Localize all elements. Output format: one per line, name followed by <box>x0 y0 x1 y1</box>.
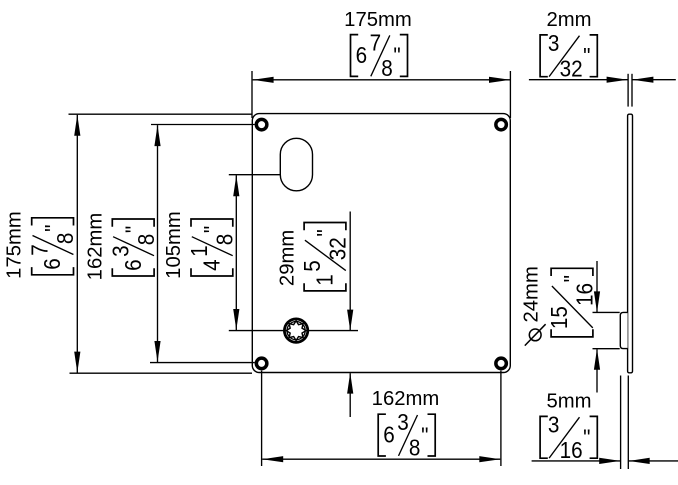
svg-text:4: 4 <box>198 259 224 271</box>
dimension 162mm bottom: inch fraction <box>378 409 435 461</box>
svg-text:175mm: 175mm <box>344 9 412 31</box>
svg-text:1: 1 <box>312 274 338 286</box>
oblong slot <box>280 138 312 191</box>
svg-text:1: 1 <box>186 245 212 257</box>
dimension dia24mm: upper arrow line <box>596 261 598 312</box>
dimension 29mm: lower arrow line <box>349 373 351 417</box>
dimension 29mm: upper arrow line <box>349 212 351 331</box>
dimension 175mm top: inch fraction <box>351 30 408 82</box>
svg-text:3: 3 <box>548 30 560 56</box>
svg-text:5mm: 5mm <box>546 391 591 413</box>
svg-text:15: 15 <box>546 306 572 329</box>
svg-text:162mm: 162mm <box>85 213 107 281</box>
dimension 105mm left: dimension line <box>235 175 237 330</box>
dimension dia24mm: lower arrow line <box>596 349 598 392</box>
svg-text:": " <box>421 422 428 448</box>
svg-text:175mm: 175mm <box>4 211 26 279</box>
svg-text:3: 3 <box>397 409 409 435</box>
dimension 2mm: right line with arrow <box>632 79 675 81</box>
svg-text:": " <box>559 275 585 282</box>
plate side view <box>628 114 633 373</box>
corner hole bottom-right <box>496 358 507 369</box>
svg-text:32: 32 <box>560 55 583 81</box>
dimension 29mm: inch fraction <box>299 223 351 291</box>
corner hole bottom-left <box>256 358 267 369</box>
svg-text:29mm: 29mm <box>277 230 299 286</box>
boss protrusion side view <box>620 312 627 348</box>
svg-text:2mm: 2mm <box>546 9 591 31</box>
dimension 2mm: inch fraction <box>540 30 597 82</box>
svg-text:3: 3 <box>107 245 133 257</box>
dimension 5mm: extension lines <box>620 376 622 470</box>
dimension 162mm left: dimension line <box>157 125 159 362</box>
dimension 5mm: right line with arrow <box>629 460 678 462</box>
dimension 5mm: left line with arrow <box>532 460 621 462</box>
corner hole top-right <box>496 119 507 130</box>
svg-text:162mm: 162mm <box>372 388 440 410</box>
svg-text:": " <box>583 43 590 69</box>
svg-text:24mm: 24mm <box>520 266 542 322</box>
plate front view outline <box>252 114 510 373</box>
dimension 162mm left: inch fraction <box>107 219 159 276</box>
svg-text:5: 5 <box>299 260 325 272</box>
dimension 162mm left: extension lines <box>151 124 255 126</box>
svg-text:": " <box>393 43 400 69</box>
dimension 105mm left: inch fraction <box>186 219 238 276</box>
svg-text:": " <box>40 225 66 232</box>
dimension 162mm bottom: dimension line <box>262 458 500 460</box>
svg-text:": " <box>583 424 590 450</box>
svg-text:8: 8 <box>52 233 78 245</box>
svg-text:8: 8 <box>409 435 421 461</box>
svg-text:8: 8 <box>211 234 237 246</box>
svg-text:6: 6 <box>383 422 395 448</box>
svg-text:7: 7 <box>370 30 382 56</box>
slot centre reference line <box>229 174 290 176</box>
svg-text:7: 7 <box>27 244 53 256</box>
svg-text:": " <box>312 229 338 236</box>
svg-text:16: 16 <box>572 283 598 306</box>
dimension dia24mm: extension lines <box>593 311 620 313</box>
dimension 175mm top: dimension line <box>253 79 510 81</box>
svg-text:105mm: 105mm <box>163 211 185 279</box>
dimension 175mm left: extension lines <box>69 113 253 115</box>
svg-text:": " <box>199 226 225 233</box>
svg-text:32: 32 <box>325 237 351 260</box>
dimension 2mm: left line with arrow <box>529 79 628 81</box>
dimension 175mm left: inch fraction <box>27 218 79 275</box>
dimension 162mm bottom: extension lines <box>261 371 263 466</box>
svg-text:6: 6 <box>39 258 65 270</box>
dimension dia24mm: inch fraction <box>546 268 598 337</box>
dimension 175mm left: dimension line <box>76 115 78 373</box>
corner hole top-left <box>256 119 267 130</box>
svg-text:8: 8 <box>381 55 393 81</box>
svg-text:6: 6 <box>120 259 146 271</box>
svg-text:6: 6 <box>356 42 368 68</box>
svg-text:8: 8 <box>133 234 159 246</box>
svg-text:16: 16 <box>560 437 583 463</box>
dimension 2mm: extension ticks <box>627 74 629 107</box>
svg-text:3: 3 <box>548 411 560 437</box>
dimension 5mm: inch fraction <box>540 411 597 463</box>
torx screw hole <box>283 318 309 344</box>
dimension dia24mm: text with diameter symbol <box>520 266 545 345</box>
torx hole centre reference line <box>229 330 358 332</box>
dimension 175mm top: extension lines <box>251 71 253 118</box>
svg-text:": " <box>120 226 146 233</box>
